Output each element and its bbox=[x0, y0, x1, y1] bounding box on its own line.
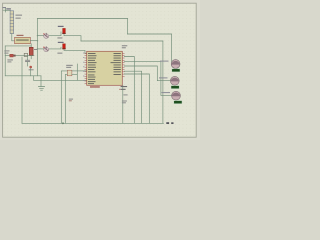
node junction bottom rail bbox=[62, 122, 64, 124]
capacitor C2 bbox=[27, 56, 29, 66]
wire U1 RC2 to motor3 net bbox=[124, 61, 171, 95]
motor M3 label text bbox=[162, 92, 171, 93]
wire below chip vertical bbox=[122, 85, 124, 123]
U1 right pin name texts bbox=[111, 53, 121, 75]
wire V1 to S1 bbox=[38, 35, 44, 37]
U1 left pin stubs bbox=[85, 53, 87, 83]
wire V1 to S2 bbox=[38, 48, 44, 50]
wire H2 to motor1 bbox=[128, 34, 172, 63]
wire V right long drop bbox=[162, 41, 164, 123]
motor M2 green terminal bar bbox=[171, 86, 179, 89]
button S2 bbox=[43, 47, 49, 52]
label X1 net text below chip bbox=[122, 101, 127, 104]
wire S2 to LED D3 bbox=[49, 47, 61, 49]
node junction V1/regulator bbox=[37, 40, 38, 41]
U1 right pin stubs bbox=[122, 53, 124, 76]
LED D2 cathode bar bbox=[62, 32, 65, 35]
wire U1 RC1 to motor2 net bbox=[124, 66, 171, 81]
label C4 text below chip bbox=[119, 86, 127, 90]
power terminal VCC top-left bbox=[3, 8, 6, 12]
motor M1 label text bbox=[160, 61, 169, 62]
node junction V1 row1 bbox=[37, 35, 38, 36]
wire chip rail lower bbox=[34, 79, 87, 81]
button S1 bbox=[43, 33, 49, 38]
wire power to connector J1 bbox=[6, 9, 11, 11]
wire right vertical from H1 bbox=[127, 19, 129, 35]
label C1 text bbox=[34, 49, 38, 50]
wire left long vertical to rail bbox=[21, 57, 23, 123]
crystal X1 cluster text bbox=[66, 65, 73, 68]
component small left cluster bbox=[7, 59, 12, 62]
wire J1 bottom to regulator input bbox=[12, 34, 15, 41]
ground symbol left bbox=[38, 76, 44, 90]
connector J1 (SIL ladder) bbox=[10, 11, 14, 34]
LED D2 red body bbox=[63, 28, 66, 33]
label PIC16F877A text below chip bbox=[90, 86, 100, 87]
wire U1 pin down b bbox=[124, 71, 141, 123]
crystal X1 body bbox=[67, 70, 72, 76]
label D3 text above bbox=[58, 42, 64, 43]
LED D3 red body bbox=[63, 44, 66, 49]
motor M1 green terminal bar bbox=[172, 69, 180, 72]
wire U1 pin down d bbox=[124, 74, 149, 123]
motor M1 body bbox=[171, 60, 180, 69]
label D2 text above bbox=[58, 26, 64, 27]
wire LED D3 to chip pin1 bbox=[64, 50, 87, 54]
capacitor C1 electrolytic body bbox=[29, 47, 33, 55]
microcontroller U1 PIC16F877A body bbox=[87, 51, 123, 85]
wire link rails bbox=[33, 76, 35, 81]
wire X1 left leads down bbox=[61, 71, 67, 123]
label D1 text bbox=[4, 50, 9, 51]
wire left rail to caps bbox=[5, 45, 31, 47]
wire bottom ground rail bbox=[22, 122, 164, 124]
wire S1 to LED D2 bbox=[49, 32, 61, 36]
label regulator pin text bbox=[16, 40, 29, 41]
wire X1 to chip OSC2 bbox=[72, 64, 77, 80]
label +5V power text bbox=[3, 7, 11, 9]
wire H3 long to right bbox=[81, 40, 163, 42]
label GND text bottom rail bbox=[166, 122, 173, 124]
wire X1 to chip OSC1 bbox=[72, 70, 87, 72]
motor M3 green terminal bar bbox=[174, 101, 182, 104]
motor M1 wire stub bbox=[171, 62, 173, 64]
label U1 designator text bbox=[122, 45, 128, 46]
wire LED D2 to H3 bbox=[64, 34, 81, 41]
label D2 value text below bbox=[57, 37, 62, 38]
wire diode row bbox=[5, 55, 34, 57]
diode D1 body bbox=[10, 54, 13, 57]
wire left vertical bbox=[4, 46, 6, 76]
motor M2 label text bbox=[159, 77, 168, 78]
component small symbol right of D1 bbox=[24, 53, 27, 56]
U1 pin number texts left bbox=[83, 53, 84, 81]
label J1 text bbox=[16, 15, 23, 19]
LED D3 cathode bar bbox=[62, 47, 65, 50]
label net text on crystal branch bbox=[69, 99, 73, 102]
wire main vertical V1 bbox=[37, 19, 39, 76]
motor M2 body bbox=[170, 76, 179, 85]
U1 left pin name texts bbox=[88, 53, 97, 84]
wire regulator output to node V1 bbox=[30, 40, 37, 42]
node junction V1 row2 bbox=[37, 48, 38, 49]
wire U1 pin down a bbox=[124, 57, 134, 124]
label C5 text below chip bbox=[123, 94, 127, 95]
wire top horizontal H1 bbox=[38, 18, 128, 20]
capacitor C3 with red mark bbox=[29, 66, 32, 69]
regulator U2 7805 bbox=[15, 37, 31, 43]
label 7805 text bbox=[17, 35, 24, 36]
wire left ground rail bbox=[5, 75, 41, 77]
capacitor C1 electrolytic lead bbox=[30, 44, 32, 59]
label D3 value text below bbox=[57, 53, 62, 54]
motor M3 body bbox=[172, 91, 181, 100]
